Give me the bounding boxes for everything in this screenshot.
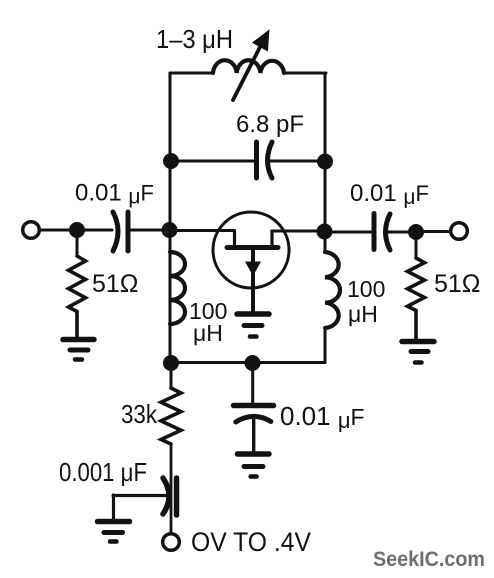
capacitor C1 6.8 pF bbox=[257, 142, 273, 178]
wire 6.8pF row right bbox=[269, 160, 325, 163]
svg-text:μH: μH bbox=[348, 301, 378, 327]
svg-text:100: 100 bbox=[347, 276, 385, 302]
transistor Q1 FET bbox=[213, 212, 289, 311]
svg-text:51Ω: 51Ω bbox=[92, 270, 139, 298]
wire left rail vertical bbox=[169, 73, 172, 363]
terminal bias bottom bbox=[163, 534, 180, 551]
svg-text:51Ω: 51Ω bbox=[434, 270, 481, 298]
wire C5 to ground bbox=[113, 495, 166, 519]
resistor R3 33k bbox=[161, 363, 181, 534]
inductor L2 100 uH left bbox=[170, 252, 185, 324]
node junction top-right bbox=[317, 154, 333, 170]
node junction right rail main row bbox=[317, 224, 333, 240]
ground R2 bbox=[402, 342, 434, 363]
wire C3 to output node bbox=[386, 231, 416, 234]
svg-text:OV TO .4V: OV TO .4V bbox=[191, 527, 311, 557]
wire input to C2 bbox=[77, 229, 112, 232]
svg-text:0.01 μF: 0.01 μF bbox=[350, 180, 429, 209]
value label 100 uH right bbox=[347, 276, 385, 327]
wire input lead bbox=[40, 229, 78, 232]
svg-text:1–3 μH: 1–3 μH bbox=[156, 24, 233, 54]
wire right rail to C3 bbox=[324, 231, 372, 234]
wire FET to right rail bbox=[272, 230, 324, 233]
wire C2 to gate rail bbox=[129, 229, 169, 232]
node junction input bbox=[69, 222, 85, 238]
resistor R1 51 ohm left bbox=[69, 230, 86, 338]
capacitor C3 0.01 uF output coupling bbox=[374, 214, 390, 251]
ground R1 bbox=[63, 340, 94, 360]
svg-text:0.01 μF: 0.01 μF bbox=[280, 401, 365, 433]
node junction output bbox=[408, 224, 424, 240]
ground C5 bbox=[98, 522, 130, 542]
svg-text:0.01 μF: 0.01 μF bbox=[75, 180, 154, 209]
resistor R2 51 ohm right bbox=[408, 232, 425, 340]
capacitor C5 0.001 uF bbox=[163, 478, 177, 515]
svg-text:SeekIC.com: SeekIC.com bbox=[373, 548, 485, 571]
wire bottom rail bbox=[170, 361, 325, 364]
inductor L3 100 uH right bbox=[325, 252, 340, 328]
svg-text:33k: 33k bbox=[121, 399, 158, 429]
ground C4 bbox=[238, 454, 270, 477]
node junction bottom-center bbox=[245, 355, 261, 371]
wire top rail left segment bbox=[170, 72, 213, 75]
svg-text:μH: μH bbox=[193, 320, 223, 346]
variable inductor arrow bbox=[233, 32, 268, 100]
wire top rail right segment bbox=[284, 72, 326, 75]
inductor L1 1-3 uH variable coil bbox=[213, 60, 284, 73]
terminal input left bbox=[23, 222, 40, 239]
terminal output right bbox=[451, 223, 468, 240]
node junction left rail main row bbox=[162, 222, 178, 238]
svg-text:0.001 μF: 0.001 μF bbox=[59, 457, 147, 487]
wire right rail vertical upper bbox=[324, 73, 327, 252]
ground FET source bbox=[237, 314, 269, 337]
svg-text:6.8 pF: 6.8 pF bbox=[236, 111, 304, 138]
node junction top-left bbox=[163, 153, 179, 169]
wire right rail lower bbox=[324, 328, 327, 363]
value label 100 uH left bbox=[189, 298, 227, 346]
wire bottom node to C4 bbox=[251, 363, 254, 403]
wire output lead bbox=[416, 230, 451, 233]
node junction bottom-left bbox=[163, 355, 179, 371]
capacitor C4 0.01 uF bypass bbox=[234, 406, 274, 452]
wire left rail to FET bbox=[169, 229, 235, 232]
wire 6.8pF row left bbox=[171, 160, 254, 163]
capacitor C2 0.01 uF input coupling bbox=[113, 212, 128, 251]
